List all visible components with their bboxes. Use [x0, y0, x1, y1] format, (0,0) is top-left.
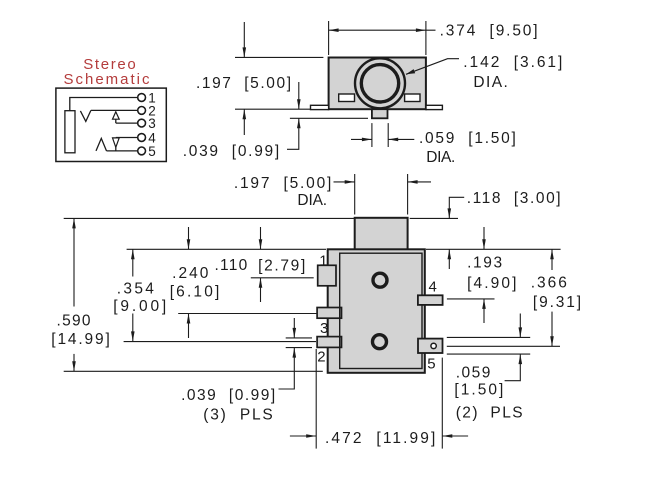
- ref line body top left: [127, 248, 326, 250]
- svg-text:[9.31]: [9.31]: [533, 294, 581, 311]
- svg-text:.366: .366: [531, 274, 567, 291]
- .366 arrows: [550, 249, 554, 259]
- dim .110 stems: [260, 227, 262, 249]
- .193 arrows: [482, 239, 486, 249]
- wire pin4: [116, 137, 138, 139]
- ref line shaft top: [64, 217, 355, 219]
- svg-text:.142 [3.61]: .142 [3.61]: [463, 54, 562, 71]
- svg-text:.197 [5.00]: .197 [5.00]: [196, 75, 291, 92]
- ref line pin2 mid: [124, 341, 316, 343]
- index post bottom tab: [372, 109, 388, 118]
- svg-text:(3) PLS: (3) PLS: [203, 407, 272, 424]
- ref line pin5 bottom: [447, 353, 530, 355]
- .039 pls arrows: [293, 328, 297, 338]
- contact circle 5: [138, 147, 146, 155]
- ref line body bottom: [64, 370, 323, 372]
- .240 arrows: [187, 239, 191, 249]
- .354 arrows: [131, 249, 135, 259]
- ref line pin1 mid: [251, 277, 314, 279]
- barrel opening outer circle: [355, 58, 405, 108]
- svg-text:.118 [3.00]: .118 [3.00]: [467, 190, 561, 207]
- svg-text:[6.10]: [6.10]: [170, 284, 220, 301]
- svg-text:3: 3: [148, 116, 156, 131]
- dim .059 extension lines: [371, 123, 373, 147]
- svg-text:DIA.: DIA.: [426, 149, 455, 166]
- pin 5 hole: [431, 343, 436, 348]
- label Stereo Schematic: [64, 56, 151, 88]
- FRONT-VIEW DIMENSIONS: [64, 174, 561, 449]
- dim .472 extension lines: [315, 349, 317, 449]
- tip spring contact V: [80, 110, 91, 121]
- dim .039 top stems: [298, 82, 300, 109]
- pin 4 tab: [418, 295, 443, 305]
- dim .590 line: [73, 218, 75, 306]
- svg-text:.590: .590: [57, 313, 91, 330]
- normally-closed switch triangle upper: [113, 112, 120, 119]
- contact circle 1: [138, 94, 146, 102]
- svg-text:.240: .240: [172, 265, 209, 282]
- .197 dia arrows: [345, 180, 355, 184]
- arrowheads front view: [72, 180, 554, 438]
- svg-text:5: 5: [427, 356, 435, 373]
- schematic box: [56, 88, 166, 161]
- ref line pin4 mid: [447, 298, 495, 300]
- svg-text:[9.00]: [9.00]: [113, 298, 166, 315]
- wire pin2: [91, 109, 138, 111]
- svg-text:.039 [0.99]: .039 [0.99]: [181, 387, 275, 404]
- svg-text:.110: .110: [215, 257, 248, 274]
- dim .039 pls stems: [293, 318, 295, 338]
- wire pin3: [116, 122, 138, 124]
- svg-text:1: 1: [319, 253, 327, 270]
- ref line pin5 top: [447, 336, 530, 338]
- svg-text:[1.50]: [1.50]: [454, 381, 503, 398]
- dim .472 stems: [290, 435, 316, 437]
- dim .039 ref line: [290, 117, 368, 119]
- dim .354 line: [132, 249, 134, 276]
- .110 arrows: [259, 239, 263, 249]
- svg-text:3: 3: [320, 320, 328, 337]
- barrel opening inner circle: [361, 65, 398, 102]
- pin 2 tab: [317, 337, 341, 348]
- dim .197 stems: [243, 22, 245, 57]
- arrowheads top view: [243, 28, 426, 141]
- svg-text:[2.79]: [2.79]: [258, 258, 305, 275]
- svg-text:.059: .059: [456, 365, 491, 382]
- svg-text:DIA.: DIA.: [473, 74, 507, 91]
- body hole lower: [373, 335, 387, 349]
- normally-closed switch triangle lower: [113, 138, 120, 147]
- pin 5 tab: [418, 339, 443, 353]
- svg-text:.472 [11.99]: .472 [11.99]: [325, 430, 435, 447]
- .118 arrows: [448, 208, 452, 218]
- svg-text:5: 5: [148, 144, 156, 159]
- connector body front view: [328, 249, 425, 372]
- contact circle 3: [138, 119, 146, 127]
- ref line pin3 mid: [178, 313, 316, 315]
- wire pin5: [107, 150, 138, 152]
- .472 arrows: [306, 434, 316, 438]
- dim .374 line: [329, 29, 436, 31]
- dim .197 dia stems: [334, 181, 355, 183]
- svg-text:.374 [9.50]: .374 [9.50]: [440, 22, 538, 39]
- connector body top view: [329, 58, 426, 110]
- svg-text:.354: .354: [117, 280, 155, 297]
- ref line pin5 mid: [447, 345, 560, 347]
- .590 arrows: [72, 218, 76, 228]
- contact circle 4: [138, 134, 146, 142]
- .059 pls arrows: [519, 327, 523, 337]
- body hole upper: [373, 273, 387, 287]
- svg-text:Schematic: Schematic: [64, 71, 151, 88]
- svg-text:[14.99]: [14.99]: [51, 331, 110, 348]
- notch left: [339, 94, 355, 102]
- dim .197 dia extension lines: [354, 174, 356, 215]
- svg-text:2: 2: [317, 349, 325, 366]
- ref line body top right: [426, 248, 561, 250]
- svg-text:[4.90]: [4.90]: [467, 275, 516, 292]
- dim .059 stems: [351, 138, 372, 140]
- threaded bushing shaft: [355, 218, 408, 251]
- jack barrel (sleeve): [65, 111, 75, 153]
- TOP-VIEW DIMENSIONS: [235, 21, 459, 149]
- dim .240 stems: [188, 227, 190, 249]
- svg-text:.059 [1.50]: .059 [1.50]: [419, 130, 516, 147]
- dim .374 extension lines: [328, 21, 330, 55]
- svg-text:4: 4: [429, 279, 437, 296]
- svg-text:(2) PLS: (2) PLS: [456, 404, 523, 421]
- inner face frame: [340, 253, 422, 368]
- ring spring contact: [96, 138, 107, 151]
- dim .193 stems: [483, 227, 485, 249]
- mount tab right: [426, 105, 442, 109]
- pin 1 tab: [318, 265, 336, 286]
- svg-text:DIA.: DIA.: [297, 192, 327, 209]
- leader .142: [406, 59, 459, 75]
- dim .197 top refs: [235, 56, 323, 58]
- mount tab left: [311, 105, 329, 109]
- notch right: [405, 94, 420, 102]
- svg-text:.197 [5.00]: .197 [5.00]: [234, 175, 331, 192]
- ref line pin2 top: [286, 337, 312, 339]
- dim .118 elbow: [449, 197, 464, 218]
- dim .366 stems: [551, 249, 553, 270]
- wire pin1: [70, 98, 138, 111]
- dim .059 pls stems: [519, 314, 521, 338]
- pin 3 tab: [317, 308, 341, 319]
- contact circle 2: [138, 107, 146, 115]
- ref line pin2 bottom: [286, 347, 312, 349]
- svg-text:.193: .193: [467, 255, 502, 272]
- svg-text:.039 [0.99]: .039 [0.99]: [183, 143, 280, 160]
